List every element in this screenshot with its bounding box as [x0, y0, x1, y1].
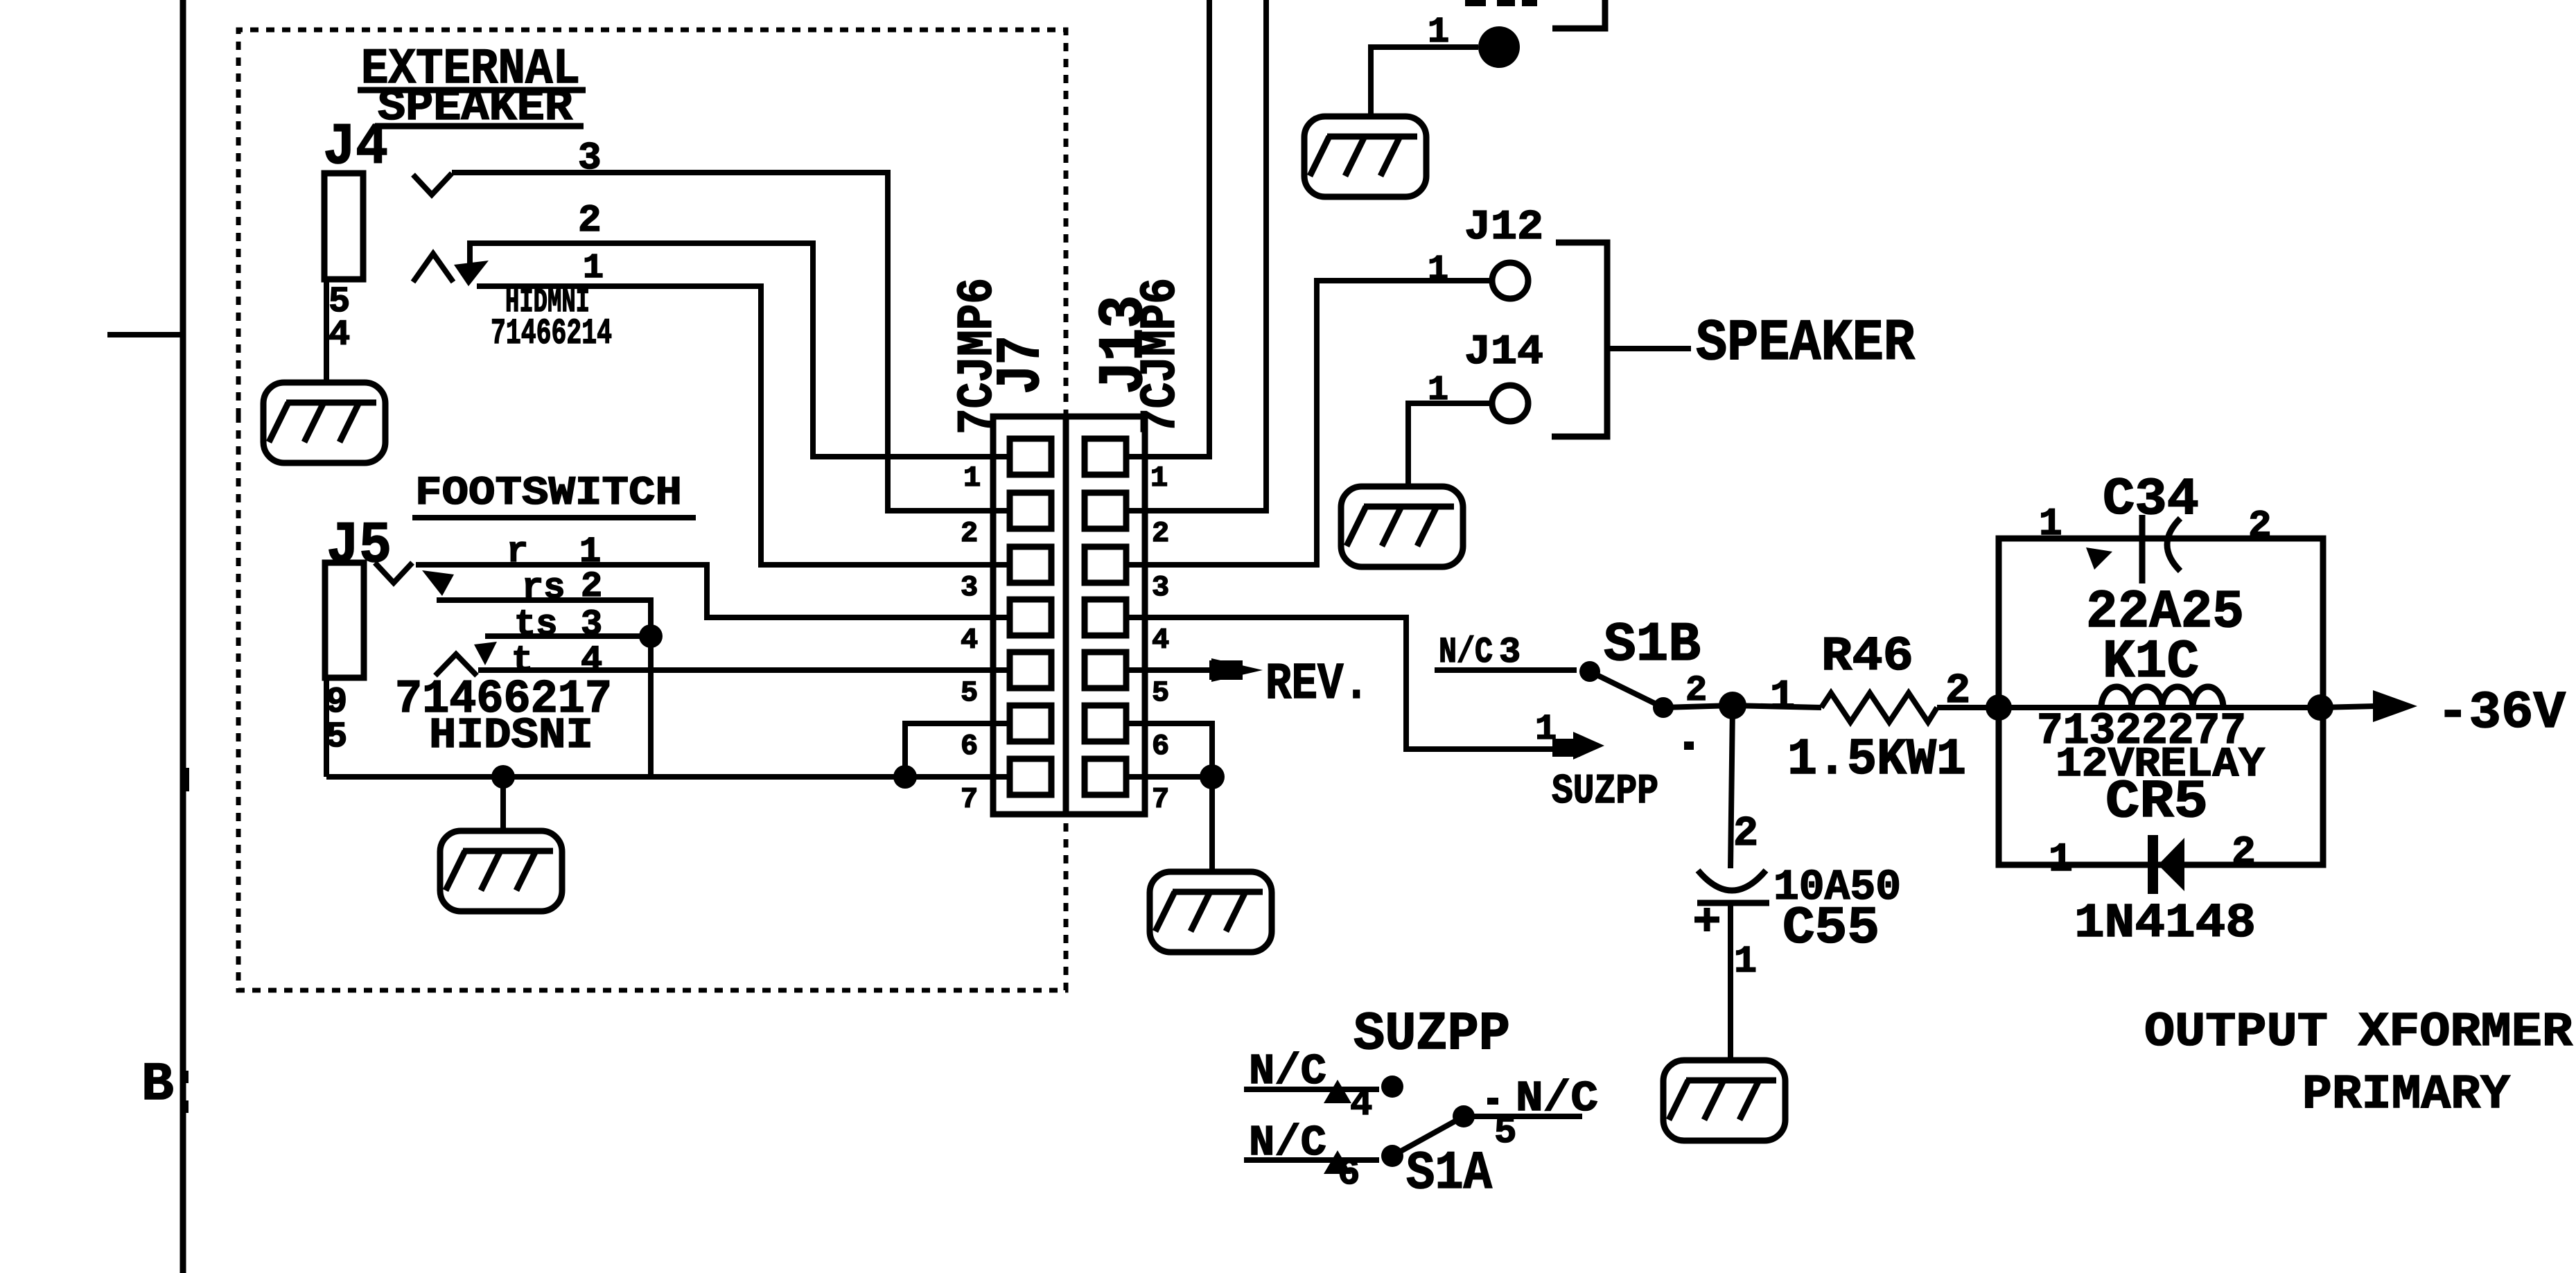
svg-text:4: 4: [961, 624, 978, 657]
svg-text:REV.: REV.: [1265, 656, 1369, 714]
svg-text:1.5KW1: 1.5KW1: [1787, 731, 1966, 789]
ground (top jack): [1304, 116, 1426, 197]
node SUZPP junction: [1719, 692, 1746, 719]
svg-text:1: 1: [1535, 709, 1557, 750]
svg-text:SUZPP: SUZPP: [1353, 1004, 1510, 1065]
wire relay coil: [1999, 705, 2323, 710]
svg-text:J12: J12: [1464, 204, 1543, 252]
svg-text:4: 4: [328, 315, 350, 355]
S1B pin1 arrow: [1552, 739, 1580, 757]
svg-text:1N4148: 1N4148: [2074, 897, 2256, 951]
border tick marks: [183, 768, 189, 791]
wire J5 ts to sleeve bus: [485, 633, 651, 639]
connector J7 pads: [1010, 439, 1051, 795]
connector J7/J13 body: [993, 416, 1145, 814]
svg-text:7CJMP6: 7CJMP6: [1132, 278, 1189, 434]
capacitor C55: [1698, 870, 1766, 890]
svg-text:3: 3: [1152, 571, 1169, 604]
svg-text:J14: J14: [1464, 329, 1543, 376]
J4 ring switch contact: [413, 254, 453, 282]
wire J5 t to J7 pin5: [478, 667, 991, 673]
connector J5 body: [325, 563, 364, 678]
S1B pin2 contact: [1653, 697, 1674, 718]
wire J13 pin1 to top edge: [1147, 0, 1209, 457]
wire sleeve ground bus: [326, 774, 991, 780]
S1A pin4 contact: [1381, 1076, 1403, 1098]
sheet border line: [180, 0, 186, 1273]
ground (J14): [1341, 486, 1463, 567]
zone tick: [107, 332, 183, 337]
svg-text:CR5: CR5: [2105, 772, 2208, 833]
wire J4 pin3 to J7 pin2: [452, 173, 991, 511]
svg-text:HIDSNI: HIDSNI: [429, 711, 593, 760]
svg-text:7: 7: [1152, 783, 1169, 816]
wire J4 sleeve to ground: [324, 279, 329, 385]
svg-text:SUZPP: SUZPP: [1552, 769, 1658, 816]
wire S1B pin2 to node: [1663, 705, 1733, 708]
svg-text:2: 2: [961, 517, 978, 550]
svg-text:R46: R46: [1821, 630, 1913, 685]
wire J4 pin2 to J7 pin1: [470, 243, 991, 457]
connector J13 pads: [1085, 439, 1126, 795]
svg-text:SPEAKER: SPEAKER: [1696, 311, 1916, 377]
svg-text:1: 1: [1150, 462, 1168, 495]
capacitor C34: [2139, 515, 2146, 583]
svg-text:1: 1: [2039, 502, 2062, 546]
J5 ring switch contact: [435, 654, 477, 676]
C34 polarity arrow: [2086, 547, 2112, 570]
ground (C55): [1663, 1060, 1785, 1141]
S1A pin5 contact: [1453, 1105, 1475, 1127]
wire J13 pin3 to J12: [1147, 281, 1492, 565]
S1B pin3 contact: [1579, 661, 1600, 682]
C55 polarity +: [1694, 917, 1719, 923]
dashed enclosure box: [238, 30, 1066, 416]
ground (J5): [440, 831, 562, 911]
svg-text:B: B: [141, 1055, 174, 1116]
S1A pin5 N/C: [1464, 1114, 1582, 1119]
partial wire bracket top right: [1552, 0, 1605, 28]
connector pad stubs: [991, 457, 1147, 777]
svg-text:1: 1: [583, 249, 604, 288]
svg-text:2: 2: [1152, 517, 1169, 550]
S1A blade: [1392, 1116, 1464, 1156]
wire J13 pin5 to REV: [1147, 667, 1211, 673]
wire J13 pin4 to S1B pin1: [1147, 617, 1568, 749]
svg-text:5: 5: [1152, 676, 1169, 710]
connector J7 pin numbers: [961, 462, 981, 816]
svg-text:J7: J7: [987, 335, 1058, 394]
junction relay right: [2307, 694, 2333, 721]
svg-text:3: 3: [581, 604, 602, 645]
net arrow -36V: [2373, 690, 2417, 722]
svg-text:6: 6: [961, 730, 978, 763]
wire J4 pin1 to J7 pin3: [477, 286, 991, 565]
ground (J13): [1150, 872, 1272, 952]
svg-text:1: 1: [963, 462, 981, 495]
junction bus/ground tap: [491, 765, 515, 789]
wire J13 pin6 to ground bus: [1147, 723, 1212, 777]
connector J13 pin numbers: [1150, 462, 1169, 816]
svg-text:3: 3: [1499, 632, 1521, 673]
wire J5 rs to sleeve bus: [437, 600, 651, 636]
connector divider: [1063, 416, 1069, 814]
svg-text:ts: ts: [514, 604, 557, 645]
svg-text:1: 1: [1734, 940, 1757, 983]
resistor R46: [1821, 693, 1937, 722]
wire bracket to label: [1607, 346, 1691, 351]
wire rs/ts down to bus: [648, 636, 654, 777]
svg-text:3: 3: [961, 571, 978, 604]
J5 tip contact: [375, 563, 412, 583]
wire J5 sleeve down: [324, 678, 329, 777]
wire J13 pin7 to ground: [1147, 777, 1212, 872]
svg-text:FOOTSWITCH: FOOTSWITCH: [415, 471, 682, 516]
svg-text:2: 2: [1733, 811, 1758, 858]
connector J4 body: [324, 173, 363, 279]
junction pin6/pin7: [1200, 764, 1225, 789]
jack J12: [1492, 263, 1528, 299]
svg-text:1: 1: [1428, 250, 1448, 290]
wire C55 to ground: [1728, 903, 1733, 1060]
junction bus/pin6 riser: [893, 765, 917, 789]
svg-text:6: 6: [1338, 1153, 1360, 1195]
J4 contact arrow: [454, 261, 489, 286]
wire J14 to ground: [1408, 403, 1492, 486]
svg-text:1: 1: [2049, 838, 2073, 883]
partial jack at top: [1478, 26, 1520, 68]
wire J5 r to J7 pin4: [416, 565, 991, 617]
wire bus to ground: [500, 777, 506, 831]
J5 contact arrow r: [422, 570, 454, 596]
svg-text:7: 7: [961, 783, 978, 816]
svg-text:C55: C55: [1782, 899, 1880, 958]
svg-text:71466214: 71466214: [491, 313, 612, 354]
wire node to C55: [1731, 705, 1733, 868]
partial text at top edge: [1465, 0, 1486, 6]
svg-text:2: 2: [2232, 831, 2256, 876]
svg-text:C34: C34: [2103, 470, 2199, 529]
wire bus riser to J7 pin6: [905, 723, 991, 777]
J4 tip contact: [413, 173, 452, 195]
svg-text:N/C: N/C: [1439, 632, 1493, 673]
net arrow REV.: [1211, 658, 1263, 682]
svg-text:5: 5: [1494, 1112, 1516, 1154]
wire jack to ground: [1371, 47, 1478, 116]
diode CR5: [2148, 835, 2158, 894]
J5 contact arrow t: [474, 642, 497, 665]
svg-text:6: 6: [1152, 730, 1169, 763]
svg-text:S1B: S1B: [1604, 614, 1701, 677]
speaker bracket: [1552, 243, 1607, 437]
svg-text:-36V: -36V: [2437, 683, 2566, 743]
ground (J4): [263, 383, 385, 463]
junction relay left: [1986, 694, 2012, 721]
svg-text:4: 4: [1350, 1084, 1372, 1126]
jack J14: [1492, 385, 1528, 421]
svg-text:PRIMARY: PRIMARY: [2302, 1068, 2510, 1123]
stray mark: [1684, 741, 1694, 750]
wire node to R46: [1733, 705, 1821, 708]
svg-text:2: 2: [578, 198, 602, 243]
wire J13 pin2 to top edge: [1147, 0, 1266, 511]
svg-text:5: 5: [961, 676, 978, 710]
svg-text:OUTPUT XFORMER: OUTPUT XFORMER: [2144, 1006, 2573, 1060]
wire to -36V: [2320, 706, 2376, 708]
svg-text:1: 1: [1770, 674, 1795, 721]
S1A pin6 contact: [1381, 1145, 1403, 1167]
relay K1C box: [1999, 538, 2323, 865]
wire R46 to relay box: [1937, 705, 1999, 710]
junction rs/ts: [639, 624, 663, 648]
S1B blade: [1590, 671, 1663, 708]
svg-text:2: 2: [2248, 504, 2272, 548]
svg-text:4: 4: [1152, 624, 1169, 657]
svg-text:S1A: S1A: [1406, 1143, 1492, 1204]
relay coil: [2101, 687, 2223, 708]
